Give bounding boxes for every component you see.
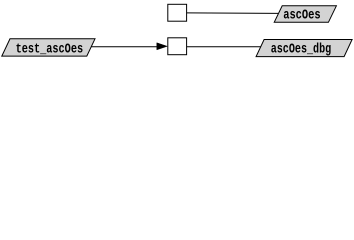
node: top object-file square	[168, 4, 187, 21]
node: asc0es_dbg parallelogram	[256, 40, 352, 57]
svg-text:test_ascOes: test_ascOes	[16, 41, 84, 57]
wire: bottom square to asc0es_dbg	[187, 46, 261, 48]
node: bottom object-file square	[168, 38, 187, 55]
arrowhead into bottom square	[157, 43, 167, 50]
wire: test_asc0es to bottom square	[91, 46, 157, 48]
svg-text:ascOes_dbg: ascOes_dbg	[271, 41, 332, 57]
svg-text:ascOes: ascOes	[283, 8, 321, 24]
node: asc0es parallelogram	[274, 6, 336, 23]
node: test_asc0es parallelogram	[2, 39, 95, 56]
wire: top square to asc0es	[187, 12, 279, 15]
